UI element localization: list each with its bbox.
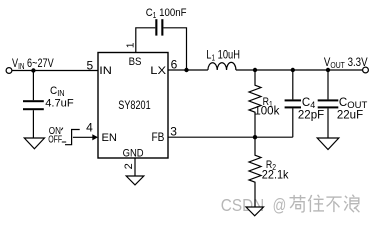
- IC U1 SY8201 body: [98, 53, 168, 159]
- wire COUT bottom: [327, 108, 329, 138]
- node junction R1 top: [253, 68, 257, 72]
- svg-text:COUT: COUT: [339, 97, 368, 111]
- wire COUT top: [327, 70, 329, 99]
- ground below CIN: [24, 138, 44, 149]
- node C1/LX junction: [184, 68, 188, 72]
- wire EN arrow: [73, 136, 93, 138]
- watermark hanzi 苟: [290, 195, 306, 212]
- svg-text:SY8201: SY8201: [118, 100, 151, 112]
- wire VIN to pin IN: [12, 70, 98, 72]
- watermark CSDN: [221, 196, 286, 215]
- svg-text:L1 10uH: L1 10uH: [206, 50, 240, 63]
- wire C4 top: [292, 70, 294, 99]
- svg-text:LX: LX: [150, 64, 166, 77]
- enable step waveform symbol: [65, 130, 80, 145]
- svg-text:1: 1: [126, 42, 137, 48]
- wire BS stub: [136, 28, 156, 53]
- svg-text:5: 5: [87, 58, 94, 72]
- wire CIN top: [32, 71, 34, 101]
- node junction FB: [253, 135, 257, 139]
- svg-text:C1 100nF: C1 100nF: [146, 6, 187, 20]
- capacitor COUT plates: [318, 99, 339, 108]
- svg-text:22.1k: 22.1k: [262, 169, 289, 181]
- svg-text:OFF: OFF: [48, 133, 62, 145]
- wire C4 bottom: [292, 108, 294, 137]
- wire LX to inductor: [168, 69, 208, 71]
- terminal VIN: [6, 68, 12, 74]
- watermark hanzi 住: [308, 195, 324, 212]
- ground below IC: [126, 176, 144, 185]
- wire GND stub pin 2: [134, 158, 136, 176]
- capacitor C4 plates: [285, 99, 301, 108]
- node junction CIN: [31, 68, 35, 72]
- terminal VOUT: [363, 67, 369, 73]
- svg-text:IN: IN: [99, 64, 112, 77]
- svg-text:3: 3: [170, 125, 177, 139]
- wire C1 right to LX node: [163, 28, 186, 70]
- inductor L1: [208, 62, 236, 70]
- node junction C4 top: [291, 68, 295, 72]
- svg-text:100k: 100k: [254, 106, 279, 118]
- svg-text:6: 6: [171, 57, 178, 71]
- svg-text:2: 2: [123, 163, 135, 169]
- watermark hanzi 浪: [344, 195, 359, 212]
- svg-text:GND: GND: [123, 148, 144, 160]
- watermark hanzi 不: [326, 197, 341, 212]
- ground below R2: [246, 207, 264, 216]
- node junction COUT top: [326, 68, 330, 72]
- svg-text:4: 4: [86, 120, 93, 134]
- wire CIN bottom: [32, 110, 34, 138]
- svg-text:BS: BS: [129, 55, 142, 68]
- svg-text:@: @: [273, 196, 287, 215]
- svg-text:FB: FB: [152, 131, 165, 144]
- wire FB: [168, 136, 293, 138]
- svg-text:4.7uF: 4.7uF: [45, 97, 74, 109]
- capacitor CIN plates: [23, 100, 44, 110]
- wire output rail: [236, 69, 363, 71]
- label ON/OFF: [48, 125, 66, 144]
- ground below COUT: [317, 138, 339, 150]
- svg-text:22uF: 22uF: [337, 110, 363, 122]
- resistor R2: [249, 137, 261, 207]
- svg-text:EN: EN: [102, 132, 117, 144]
- resistor R1: [249, 70, 261, 137]
- capacitor C1 plates: [155, 19, 163, 35]
- svg-text:22pF: 22pF: [298, 110, 324, 122]
